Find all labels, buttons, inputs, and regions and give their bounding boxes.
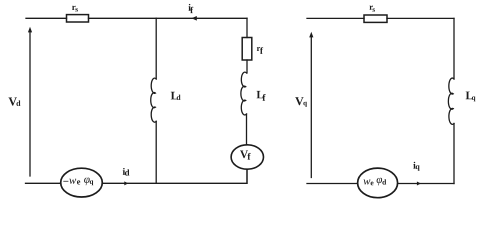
source -w_e*phi_q (speed voltage)	[61, 168, 103, 197]
current arrow i_d	[123, 168, 130, 185]
wire q-axis right branch upper	[453, 18, 455, 79]
wire d-axis top-left segment	[26, 17, 67, 19]
inductor L_d	[151, 78, 181, 122]
wire d-axis top right segment	[156, 17, 247, 19]
wire q-axis right branch lower	[453, 124, 455, 184]
source V_f (field voltage)	[231, 145, 263, 169]
wire field branch top	[246, 18, 248, 37]
resistor r_s (d-axis stator)	[67, 6, 89, 22]
wire d-axis bottom left segment	[26, 182, 61, 184]
wire q-axis bottom right segment	[398, 183, 454, 185]
wire q-axis top right segment	[387, 17, 454, 19]
wire between r_f and L_f	[246, 60, 248, 73]
inductor L_q	[448, 78, 475, 124]
voltage arrow V_q	[295, 32, 313, 178]
resistor r_s (q-axis stator)	[364, 6, 387, 23]
voltage arrow V_d	[9, 27, 33, 176]
resistor r_f (field)	[242, 38, 263, 61]
wire L_d branch upper	[155, 18, 157, 79]
wire L_d branch lower	[155, 121, 157, 183]
source w_e*phi_d (speed voltage)	[358, 168, 398, 198]
current arrow i_f	[188, 4, 196, 21]
current arrow i_q	[413, 162, 421, 186]
wire d-axis top middle segment	[89, 17, 157, 19]
inductor L_f	[241, 72, 266, 115]
wire q-axis top-left segment	[307, 17, 364, 19]
wire between L_f and V_f	[246, 114, 248, 145]
wire q-axis bottom left segment	[307, 183, 358, 185]
wire d-axis bottom right segment	[102, 170, 247, 184]
wire field branch bottom	[246, 170, 248, 184]
